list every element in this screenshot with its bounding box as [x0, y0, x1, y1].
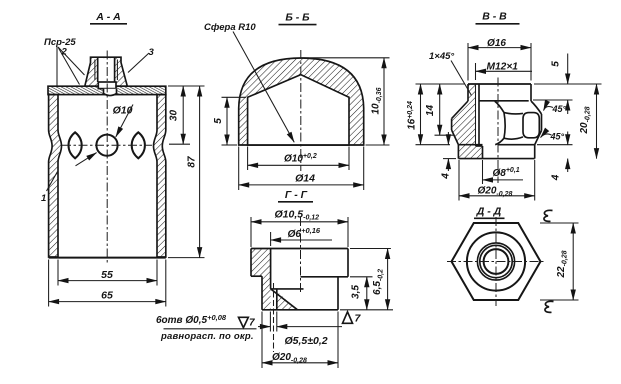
svg-text:5: 5 — [213, 118, 224, 124]
svg-text:45°: 45° — [552, 104, 567, 114]
svg-text:1×45°: 1×45° — [429, 51, 454, 62]
svg-text:Пср-25: Пср-25 — [44, 37, 76, 48]
svg-text:14: 14 — [425, 105, 436, 117]
svg-text:65: 65 — [101, 290, 113, 302]
svg-text:55: 55 — [101, 269, 113, 281]
svg-text:Ø14: Ø14 — [295, 172, 315, 184]
svg-text:Сфера R10: Сфера R10 — [204, 22, 256, 33]
svg-text:В - В: В - В — [482, 11, 507, 23]
svg-text:3,5: 3,5 — [351, 285, 362, 299]
svg-text:5: 5 — [551, 61, 562, 67]
svg-text:Г - Г: Г - Г — [285, 189, 308, 201]
svg-text:45°: 45° — [550, 132, 565, 142]
svg-text:M12×1: M12×1 — [487, 62, 519, 73]
svg-text:7: 7 — [249, 318, 255, 329]
svg-text:А - А: А - А — [95, 11, 121, 23]
svg-text:Ø5,5±0,2: Ø5,5±0,2 — [285, 335, 328, 347]
svg-text:Д - Д: Д - Д — [476, 206, 502, 218]
svg-text:87: 87 — [187, 156, 198, 168]
svg-text:30: 30 — [169, 110, 180, 122]
svg-text:Б - Б: Б - Б — [285, 12, 310, 24]
svg-text:Ø16: Ø16 — [487, 38, 506, 49]
svg-text:4: 4 — [441, 173, 452, 180]
svg-text:равнорасп. по окр.: равнорасп. по окр. — [160, 331, 254, 342]
svg-text:4: 4 — [551, 174, 562, 181]
svg-text:3: 3 — [149, 47, 155, 58]
svg-text:1: 1 — [41, 193, 46, 204]
